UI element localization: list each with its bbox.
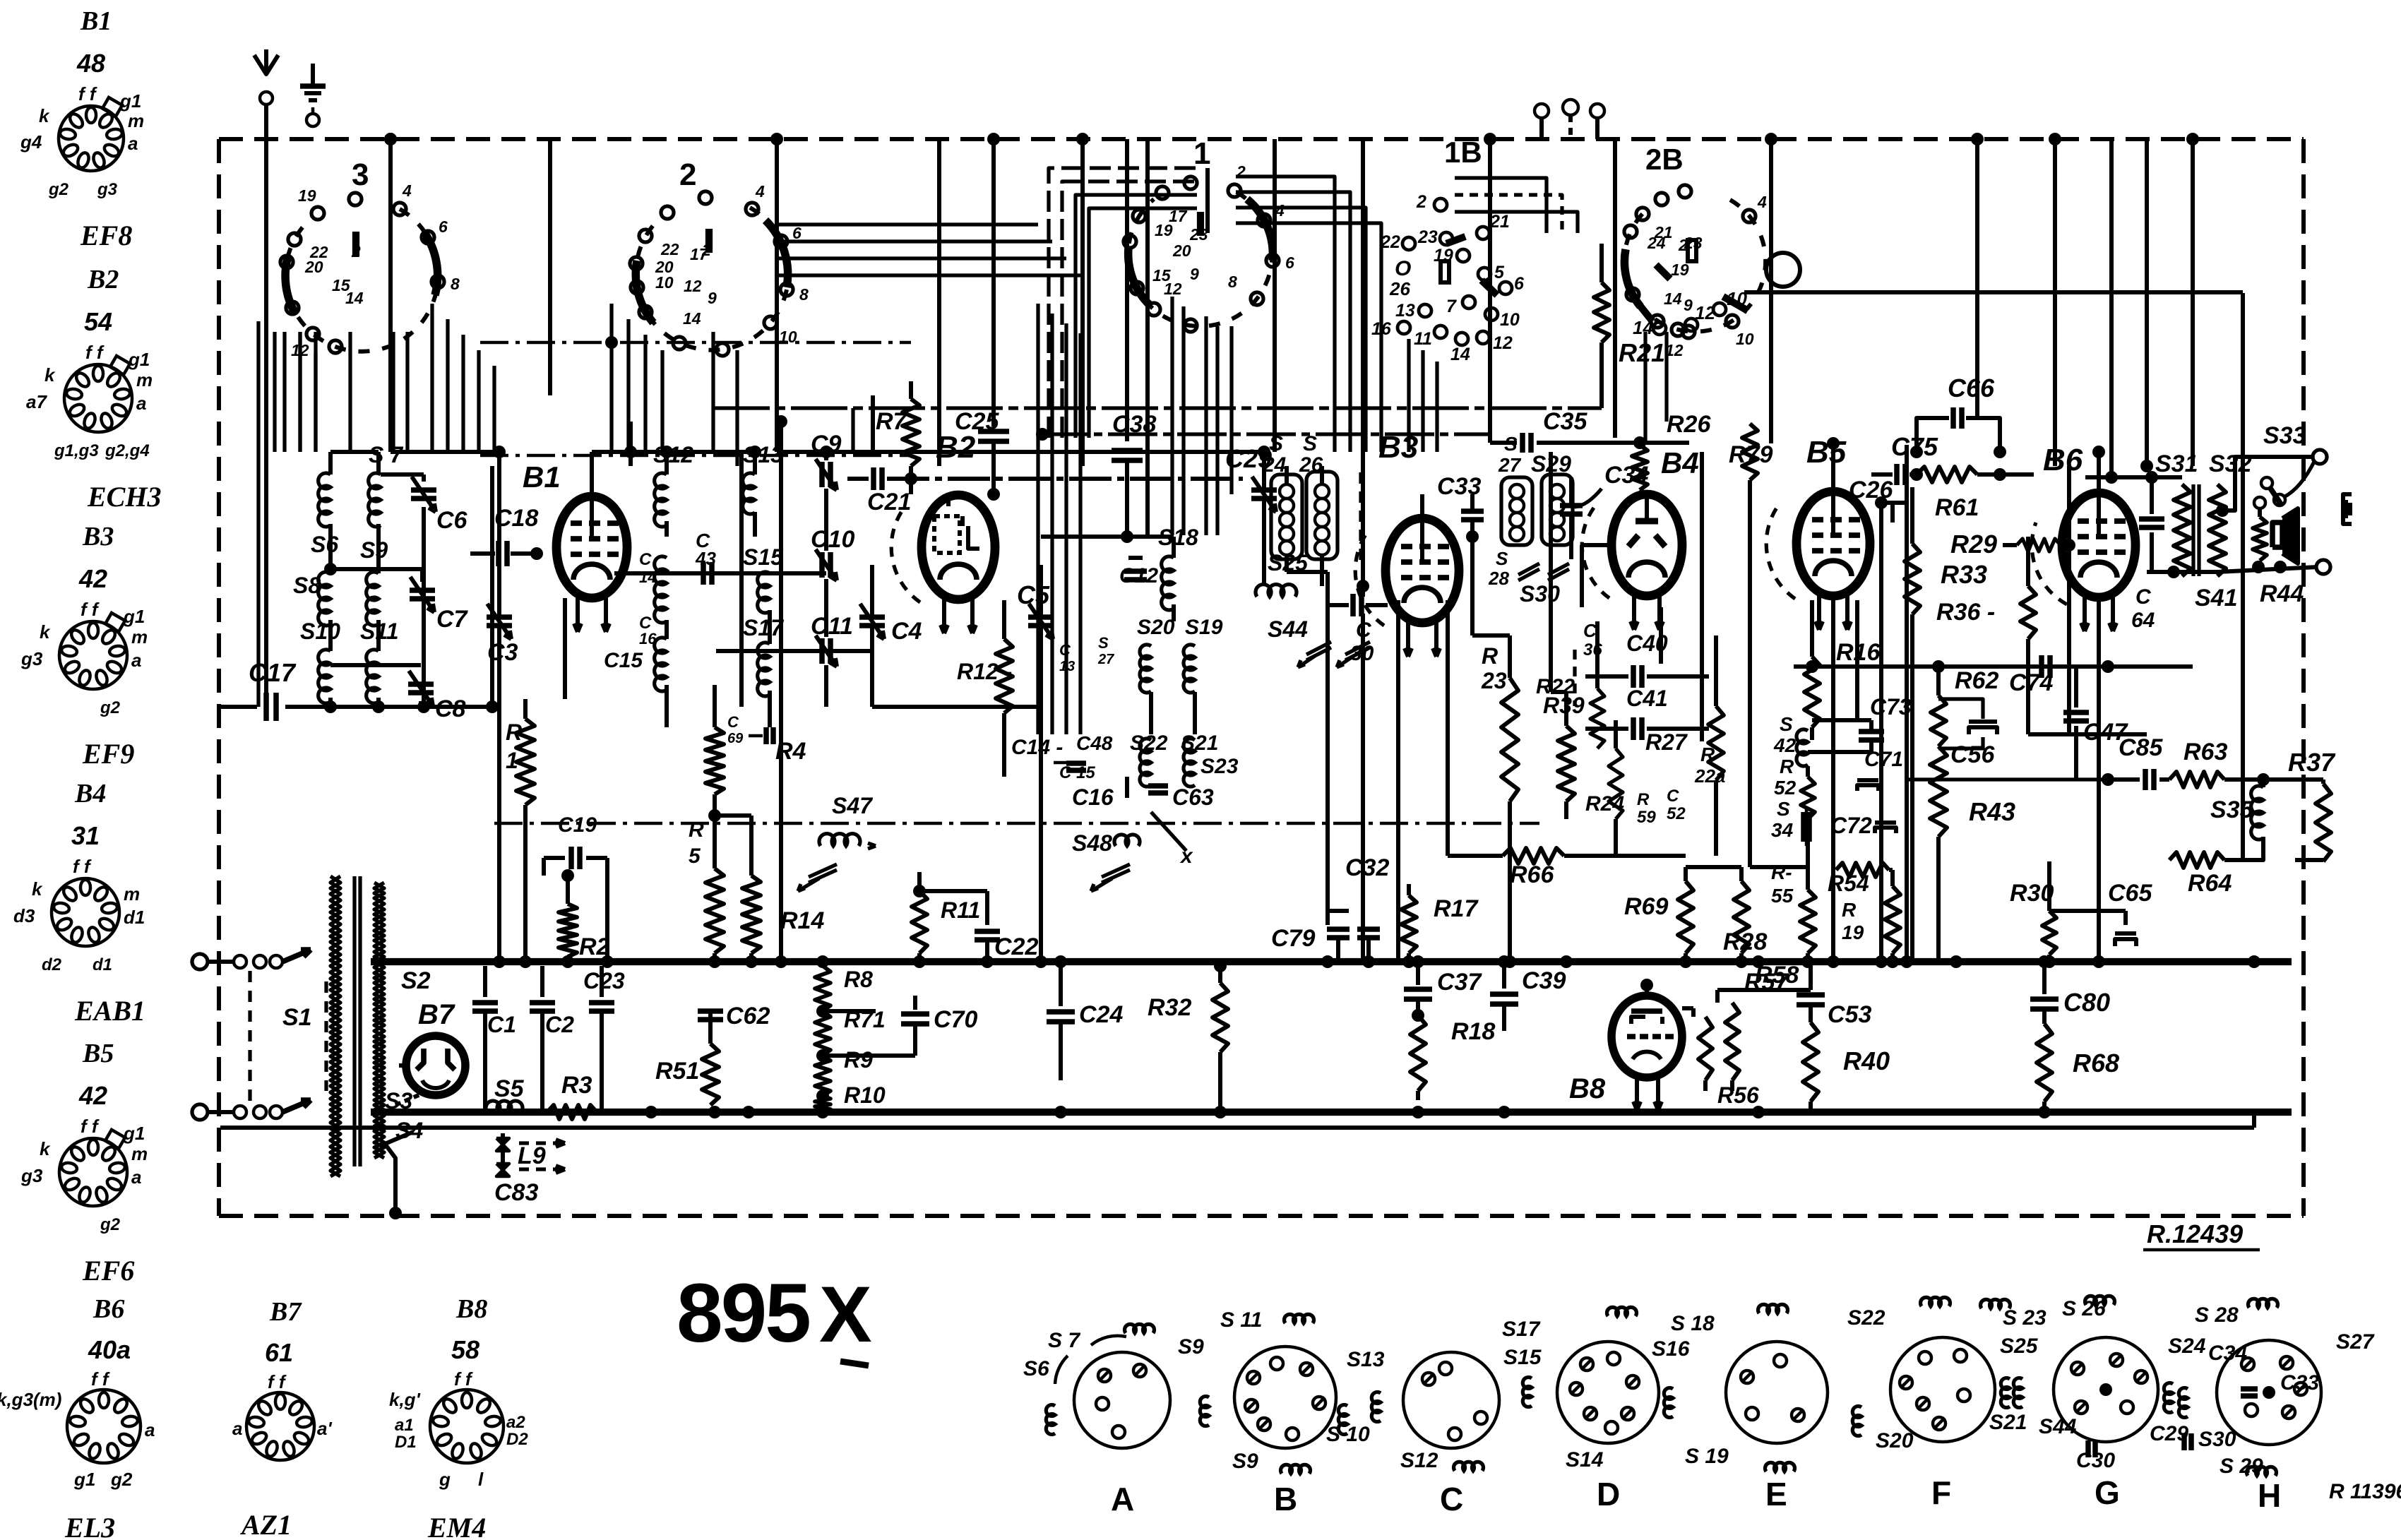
svg-text:R26: R26 xyxy=(1667,411,1711,438)
svg-text:g3: g3 xyxy=(20,648,43,669)
svg-text:S33: S33 xyxy=(2263,422,2306,449)
svg-text:H: H xyxy=(2258,1477,2281,1514)
svg-text:R: R xyxy=(1842,899,1857,921)
C43 row wire xyxy=(614,571,826,575)
svg-text:S6: S6 xyxy=(311,532,338,557)
svg-text:28: 28 xyxy=(1488,568,1509,589)
svg-text:S9: S9 xyxy=(1178,1335,1204,1359)
anode top line xyxy=(2085,475,2182,479)
switch 3 internal rectangle xyxy=(298,332,302,452)
power transformer secondary winding xyxy=(374,883,384,1158)
svg-text:f f: f f xyxy=(454,1368,473,1390)
svg-text:36: 36 xyxy=(1583,640,1602,659)
dash-dot line y485 xyxy=(480,341,911,345)
HT bus (thick) xyxy=(371,958,2292,965)
wire B1 cathode leads xyxy=(563,598,567,699)
svg-text:R8: R8 xyxy=(844,967,873,992)
wires to B4 xyxy=(1582,543,1611,547)
svg-text:S1: S1 xyxy=(282,1004,312,1031)
svg-text:6: 6 xyxy=(792,224,802,242)
svg-text:C79: C79 xyxy=(1271,925,1315,952)
svg-text:13: 13 xyxy=(1395,301,1415,321)
svg-text:R68: R68 xyxy=(2073,1049,2119,1078)
wire drop x=553 xyxy=(388,139,393,452)
svg-text:C83: C83 xyxy=(494,1179,538,1206)
wires right of switch 3 down to coils xyxy=(430,304,434,452)
svg-text:12: 12 xyxy=(684,277,702,295)
svg-text:C: C xyxy=(1667,787,1679,806)
svg-text:g1: g1 xyxy=(119,90,141,112)
svg-text:f f: f f xyxy=(91,1368,110,1390)
svg-text:19: 19 xyxy=(298,186,316,205)
svg-text:O: O xyxy=(1395,257,1411,280)
svg-text:EF6: EF6 xyxy=(82,1255,134,1287)
svg-text:R-: R- xyxy=(1771,861,1792,883)
svg-text:f f: f f xyxy=(268,1371,287,1392)
svg-text:C22: C22 xyxy=(994,933,1038,960)
svg-text:R11: R11 xyxy=(941,897,980,923)
svg-text:S15: S15 xyxy=(1503,1346,1542,1369)
svg-text:d3: d3 xyxy=(13,905,35,926)
svg-text:4: 4 xyxy=(755,182,765,201)
svg-text:k: k xyxy=(32,878,43,900)
long horizontal grid line upper xyxy=(1039,432,1490,436)
svg-text:2: 2 xyxy=(1416,192,1426,212)
svg-text:S23: S23 xyxy=(1200,755,1239,778)
svg-text:8: 8 xyxy=(451,275,460,293)
svg-text:69: 69 xyxy=(727,731,744,746)
wire S4 to bottom border xyxy=(385,1144,395,1213)
svg-text:C14 -: C14 - xyxy=(1011,736,1063,759)
bundle from switch2 right to comb xyxy=(775,222,1038,226)
svg-text:D: D xyxy=(1597,1476,1620,1512)
wire drop x=1533 xyxy=(1080,139,1085,466)
svg-text:B: B xyxy=(1274,1481,1297,1517)
wire drop x=2508 xyxy=(1769,139,1773,443)
svg-text:g2: g2 xyxy=(48,180,69,199)
mains terminal lower xyxy=(192,1104,208,1120)
svg-text:R37: R37 xyxy=(2288,748,2336,777)
svg-text:C23: C23 xyxy=(583,968,625,993)
svg-text:R3: R3 xyxy=(561,1072,592,1099)
svg-text:C17: C17 xyxy=(249,658,297,687)
capacitor C64 plate xyxy=(2150,477,2154,514)
svg-text:9: 9 xyxy=(1684,296,1693,314)
svg-text:10: 10 xyxy=(1500,310,1520,330)
svg-text:B4: B4 xyxy=(74,779,106,808)
svg-text:S17: S17 xyxy=(1502,1318,1541,1341)
svg-text:895: 895 xyxy=(677,1267,809,1360)
svg-text:D1: D1 xyxy=(395,1433,417,1452)
svg-text:R: R xyxy=(1780,756,1794,777)
svg-text:C39: C39 xyxy=(1522,967,1566,994)
svg-text:42: 42 xyxy=(78,564,107,593)
svg-text:20: 20 xyxy=(1172,241,1191,260)
voltage selector dashed links xyxy=(248,971,251,1102)
svg-text:48: 48 xyxy=(76,49,105,78)
AF line xyxy=(1907,777,2108,781)
svg-text:S20: S20 xyxy=(1137,616,1175,639)
svg-text:f f: f f xyxy=(78,83,97,105)
misc horizontals xyxy=(1264,465,1317,467)
wire drop x=2287 xyxy=(1613,139,1617,438)
svg-text:f f: f f xyxy=(85,342,105,363)
svg-text:C66: C66 xyxy=(1948,374,1995,402)
svg-text:55: 55 xyxy=(1771,885,1794,907)
svg-text:X: X xyxy=(819,1270,872,1359)
svg-text:2: 2 xyxy=(679,157,696,192)
svg-text:22a: 22a xyxy=(1694,765,1725,787)
svg-text:59: 59 xyxy=(1637,808,1656,827)
wire drop x=1596 xyxy=(1125,139,1129,395)
svg-text:g1: g1 xyxy=(73,1469,95,1490)
svg-text:12: 12 xyxy=(1164,280,1182,298)
upper AVC branch dash-dot xyxy=(480,454,911,458)
svg-text:a': a' xyxy=(317,1418,332,1439)
svg-text:S9: S9 xyxy=(1232,1450,1258,1473)
svg-text:B6: B6 xyxy=(2043,443,2083,477)
svg-text:S25: S25 xyxy=(2000,1335,2039,1358)
svg-text:g1: g1 xyxy=(123,1123,145,1144)
svg-text:S 29: S 29 xyxy=(2220,1455,2263,1478)
svg-text:C56: C56 xyxy=(1950,741,1995,768)
svg-text:58: 58 xyxy=(451,1335,479,1364)
svg-text:B1: B1 xyxy=(523,460,561,494)
screen feed line xyxy=(1794,664,2193,669)
svg-text:R22: R22 xyxy=(1536,675,1575,698)
svg-text:a1: a1 xyxy=(395,1416,414,1435)
shield arc B6 xyxy=(2032,523,2067,604)
svg-text:EM4: EM4 xyxy=(427,1512,486,1540)
svg-text:S 19: S 19 xyxy=(1685,1445,1729,1468)
wire drop x=1930 xyxy=(1361,139,1365,452)
svg-text:g3: g3 xyxy=(20,1165,43,1186)
svg-text:21: 21 xyxy=(1654,223,1673,241)
svg-text:C: C xyxy=(1440,1481,1463,1517)
wire to S33 from 2B xyxy=(1744,290,2243,294)
svg-text:23: 23 xyxy=(1417,227,1438,247)
svg-text:C32: C32 xyxy=(1345,854,1389,881)
svg-text:C80: C80 xyxy=(2063,988,2110,1017)
wire drop x=2800 xyxy=(1975,139,1979,418)
svg-text:6: 6 xyxy=(1285,253,1294,272)
svg-text:S47: S47 xyxy=(832,793,874,818)
svg-text:a: a xyxy=(131,1166,141,1188)
trimmer C3 xyxy=(487,614,512,620)
switch2 right feeds xyxy=(711,332,715,452)
svg-text:S17: S17 xyxy=(743,615,785,640)
svg-text:S12: S12 xyxy=(1400,1449,1438,1472)
svg-text:5: 5 xyxy=(1494,263,1505,282)
svg-text:g1: g1 xyxy=(128,349,150,370)
svg-text:22: 22 xyxy=(660,240,679,258)
svg-text:C5: C5 xyxy=(1017,580,1050,609)
svg-text:40a: 40a xyxy=(88,1335,131,1364)
svg-text:R14: R14 xyxy=(780,907,824,934)
svg-text:g1,g3: g1,g3 xyxy=(54,441,99,460)
svg-text:S 10: S 10 xyxy=(1326,1423,1370,1446)
svg-text:f f: f f xyxy=(81,599,100,620)
svg-text:B8: B8 xyxy=(1569,1073,1606,1104)
svg-text:52: 52 xyxy=(1774,777,1797,799)
svg-text:S6: S6 xyxy=(1023,1357,1049,1380)
svg-text:C 15: C 15 xyxy=(1059,763,1095,782)
svg-text:EF8: EF8 xyxy=(80,220,132,251)
svg-text:C35: C35 xyxy=(1543,408,1587,435)
wire drop x=1625 xyxy=(1145,139,1150,494)
extra long verticals xyxy=(1325,572,1330,911)
svg-text:64: 64 xyxy=(2131,609,2155,632)
trimmer C7 xyxy=(410,587,435,593)
shield arc B2 xyxy=(891,509,920,602)
speaker xyxy=(2272,523,2282,547)
svg-text:f f: f f xyxy=(81,1116,100,1137)
long horizontal line mid xyxy=(713,406,1602,410)
svg-text:R44: R44 xyxy=(2260,580,2304,607)
svg-text:S30: S30 xyxy=(2198,1428,2236,1451)
wire drop x=1100 xyxy=(775,139,779,452)
wire bundle 1B xyxy=(1236,177,1335,452)
svg-text:B5: B5 xyxy=(82,1039,114,1068)
svg-text:f f: f f xyxy=(73,856,92,877)
svg-text:14: 14 xyxy=(345,289,364,307)
svg-text:7: 7 xyxy=(1446,297,1457,316)
svg-text:B6: B6 xyxy=(93,1294,124,1324)
switch2 left feed verticals xyxy=(609,304,613,452)
svg-text:C3: C3 xyxy=(487,639,518,666)
socket diagram A xyxy=(1074,1352,1170,1448)
svg-text:10: 10 xyxy=(1736,330,1754,348)
svg-text:C71: C71 xyxy=(1864,748,1903,771)
svg-text:C37: C37 xyxy=(1437,969,1482,996)
resistor R21 xyxy=(1594,282,1609,342)
pilot lamp near 2B xyxy=(1766,253,1800,287)
svg-text:R.12439: R.12439 xyxy=(2147,1219,2243,1248)
wire bundle between switch 2 and 1 xyxy=(1049,168,1197,438)
svg-text:8: 8 xyxy=(1228,273,1237,291)
svg-text:14: 14 xyxy=(683,309,701,328)
1B to B3 verticals xyxy=(1407,339,1410,452)
trimmer C6 xyxy=(411,487,436,493)
svg-text:20: 20 xyxy=(304,258,323,276)
svg-text:R51: R51 xyxy=(655,1058,699,1085)
svg-text:S2: S2 xyxy=(401,967,431,994)
svg-text:42: 42 xyxy=(1773,734,1797,756)
svg-text:S32: S32 xyxy=(2209,450,2252,477)
svg-text:R32: R32 xyxy=(1148,994,1191,1021)
svg-text:B5: B5 xyxy=(1806,435,1847,470)
svg-text:AZ1: AZ1 xyxy=(239,1509,292,1540)
svg-text:S5: S5 xyxy=(494,1075,525,1102)
output jack top xyxy=(2313,450,2327,464)
svg-text:5: 5 xyxy=(689,844,701,868)
external speaker symbol xyxy=(2343,494,2352,524)
svg-text:S 23: S 23 xyxy=(2003,1306,2046,1330)
mains terminal upper xyxy=(192,954,208,969)
coil bank outer rect wires xyxy=(256,321,260,707)
svg-text:R9: R9 xyxy=(844,1047,873,1073)
svg-text:a: a xyxy=(136,393,146,414)
ground bus (thick) xyxy=(371,1109,2292,1116)
svg-text:R69: R69 xyxy=(1624,893,1668,920)
svg-text:1B: 1B xyxy=(1444,136,1482,169)
svg-text:C63: C63 xyxy=(1172,784,1214,810)
svg-text:S: S xyxy=(1496,548,1508,569)
svg-text:a2: a2 xyxy=(506,1413,525,1432)
svg-text:C19: C19 xyxy=(558,813,597,837)
svg-text:C48: C48 xyxy=(1076,732,1113,754)
svg-text:B7: B7 xyxy=(269,1297,302,1327)
svg-text:C85: C85 xyxy=(2119,734,2163,761)
svg-text:R40: R40 xyxy=(1843,1046,1890,1075)
wire drop x=1407 xyxy=(991,139,996,395)
svg-text:S16: S16 xyxy=(1652,1337,1690,1361)
svg-text:D2: D2 xyxy=(506,1430,528,1449)
svg-text:B7: B7 xyxy=(418,999,455,1030)
coil S10 xyxy=(318,650,330,703)
svg-text:42: 42 xyxy=(78,1081,107,1110)
svg-text:R63: R63 xyxy=(2183,739,2227,765)
svg-text:d1: d1 xyxy=(93,955,112,974)
svg-text:C33: C33 xyxy=(2280,1371,2319,1395)
svg-text:S44: S44 xyxy=(2039,1415,2077,1438)
C9 top row wire xyxy=(777,450,1264,454)
svg-text:k: k xyxy=(39,105,50,126)
svg-text:g2,g4: g2,g4 xyxy=(105,441,150,460)
svg-text:R43: R43 xyxy=(1969,797,2015,826)
svg-text:k,g3(m): k,g3(m) xyxy=(0,1389,61,1410)
svg-text:L9: L9 xyxy=(518,1142,546,1169)
svg-text:23: 23 xyxy=(1481,668,1507,693)
svg-text:C7: C7 xyxy=(436,606,469,633)
trimmer C4 xyxy=(859,614,885,620)
socket diagram B xyxy=(1234,1347,1336,1448)
svg-text:a: a xyxy=(128,133,138,154)
svg-text:S9: S9 xyxy=(360,537,388,563)
svg-text:B3: B3 xyxy=(82,522,114,551)
svg-text:C26: C26 xyxy=(1849,477,1893,503)
svg-text:G: G xyxy=(2095,1474,2120,1511)
svg-text:R18: R18 xyxy=(1451,1018,1495,1045)
svg-text:C41: C41 xyxy=(1626,686,1668,711)
svg-text:R27: R27 xyxy=(1645,729,1688,755)
svg-text:R21: R21 xyxy=(1619,338,1665,367)
svg-text:C53: C53 xyxy=(1828,1001,1871,1028)
svg-text:R29: R29 xyxy=(1950,530,1997,559)
socket diagram E xyxy=(1726,1342,1828,1443)
svg-text:ECH3: ECH3 xyxy=(87,481,161,513)
svg-text:S22: S22 xyxy=(1847,1306,1885,1330)
ground terminal xyxy=(311,64,315,86)
long verticals center xyxy=(628,422,633,452)
svg-text:S 18: S 18 xyxy=(1671,1312,1715,1335)
svg-text:C72: C72 xyxy=(1830,813,1872,838)
svg-text:9: 9 xyxy=(708,289,717,307)
svg-text:m: m xyxy=(136,369,153,390)
svg-text:C2: C2 xyxy=(545,1012,574,1037)
svg-text:d2: d2 xyxy=(42,955,62,974)
svg-text:R: R xyxy=(1637,790,1650,809)
svg-text:k,g': k,g' xyxy=(389,1389,421,1410)
svg-text:19: 19 xyxy=(1842,921,1864,943)
svg-text:R: R xyxy=(1482,643,1498,669)
svg-text:C: C xyxy=(727,713,739,731)
switch3 to coil bank verticals xyxy=(273,332,276,452)
svg-text:C34: C34 xyxy=(2208,1342,2247,1365)
svg-text:C1: C1 xyxy=(487,1012,516,1037)
dial lamp leads with arrows xyxy=(519,1141,565,1145)
socket diagram F xyxy=(1890,1337,1995,1442)
svg-text:R36 -: R36 - xyxy=(1936,599,1995,626)
svg-text:m: m xyxy=(131,1143,148,1164)
svg-text:g3: g3 xyxy=(97,180,118,199)
svg-text:S44: S44 xyxy=(1268,616,1308,642)
svg-text:a: a xyxy=(232,1418,242,1439)
svg-text:R61: R61 xyxy=(1935,494,1979,521)
svg-text:a7: a7 xyxy=(26,391,47,412)
svg-text:d1: d1 xyxy=(124,907,145,928)
svg-text:S10: S10 xyxy=(300,619,340,644)
svg-text:12: 12 xyxy=(1493,333,1513,353)
svg-text:C15: C15 xyxy=(604,649,643,672)
socket diagram C xyxy=(1403,1352,1499,1448)
svg-text:27: 27 xyxy=(1097,652,1114,667)
svg-text:54: 54 xyxy=(84,307,112,336)
grid coupling caps row xyxy=(1041,535,1174,539)
lower chassis line xyxy=(220,1126,2254,1130)
svg-text:C4: C4 xyxy=(891,618,922,645)
socket diagram H xyxy=(2217,1340,2321,1445)
svg-text:R62: R62 xyxy=(1955,667,1998,694)
svg-text:S: S xyxy=(1098,634,1109,652)
wire drop x=2110 xyxy=(1488,139,1492,443)
svg-text:61: 61 xyxy=(265,1338,293,1367)
2B down verticals xyxy=(1643,332,1647,443)
svg-text:S41: S41 xyxy=(2195,585,2238,611)
svg-text:R56: R56 xyxy=(1717,1082,1759,1108)
wire group B1 to B2 xyxy=(628,452,633,466)
transformer core xyxy=(352,876,356,1166)
svg-text:S 11: S 11 xyxy=(1220,1308,1263,1332)
adjustable core arrows S47/S48 xyxy=(809,870,837,883)
svg-text:m: m xyxy=(124,883,140,905)
svg-text:B8: B8 xyxy=(455,1294,487,1324)
svg-text:C62: C62 xyxy=(726,1003,770,1029)
wire drop x=1805 xyxy=(1273,139,1277,452)
svg-text:14: 14 xyxy=(1633,317,1653,338)
svg-text:g4: g4 xyxy=(20,131,42,153)
svg-text:2B: 2B xyxy=(1645,143,1684,176)
svg-text:9: 9 xyxy=(1190,265,1199,283)
svg-text:11: 11 xyxy=(1414,329,1432,349)
oscillator row wire xyxy=(872,705,1041,709)
left vert from border to C17 row xyxy=(218,705,222,709)
svg-text:1: 1 xyxy=(1193,136,1210,171)
trimmer C8 xyxy=(408,681,434,687)
svg-text:C70: C70 xyxy=(934,1006,977,1033)
wire bundle 2B xyxy=(1455,178,1547,233)
svg-text:21: 21 xyxy=(1489,212,1510,232)
svg-text:C65: C65 xyxy=(2108,880,2152,907)
coil S11 xyxy=(367,650,379,703)
junction dots xyxy=(384,133,397,145)
svg-text:B2: B2 xyxy=(936,430,976,465)
svg-text:S21: S21 xyxy=(1989,1411,2027,1434)
svg-text:S24: S24 xyxy=(2168,1335,2206,1358)
svg-text:EAB1: EAB1 xyxy=(74,995,145,1027)
output bottom line xyxy=(2147,570,2217,574)
svg-text:S: S xyxy=(1780,713,1793,735)
